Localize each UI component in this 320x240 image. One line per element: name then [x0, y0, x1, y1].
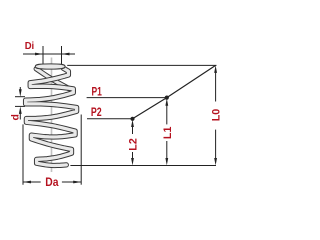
spring helix body (double stroked band) — [26, 66, 77, 166]
P1 line — [87, 97, 167, 99]
Di arrow left (pointing right, tip at x=43) — [35, 53, 43, 56]
Da extension line left — [22, 124, 24, 184]
L0 dimension: arrow up at top junction — [214, 65, 217, 73]
wire d dimension: upper arrow pointing down — [19, 87, 21, 92]
Di extension line right — [61, 46, 63, 65]
L1 lower line + down arrow — [166, 141, 168, 162]
svg-text:L2: L2 — [127, 138, 139, 151]
Da dimension line right part — [62, 181, 81, 183]
Di arrow right (pointing left, tip at x=61.5) — [62, 53, 70, 56]
svg-text:Di: Di — [25, 40, 35, 52]
d tick bottom — [15, 105, 25, 107]
diagonal load line — [133, 65, 216, 118]
centerline (spring axis) — [51, 58, 53, 173]
d tick top — [15, 96, 25, 98]
svg-text:d: d — [10, 114, 22, 120]
svg-text:Da: Da — [45, 175, 58, 189]
Di extension line left — [42, 46, 44, 65]
spring helix main path dark pass — [26, 68, 77, 165]
svg-text:P2: P2 — [91, 105, 102, 119]
L2 lower line + down arrow — [132, 152, 134, 162]
P2 line — [87, 118, 133, 120]
Da arrow left (tip at x=23 pointing left) — [23, 181, 31, 184]
Da extension line right — [80, 115, 82, 185]
svg-text:L0: L0 — [210, 109, 220, 122]
top reference line (L0 top) — [67, 64, 216, 66]
L0 lower line + down arrow — [215, 130, 217, 162]
L1 dimension: arrow up at dot — [165, 98, 168, 106]
bottom baseline — [70, 165, 216, 167]
L2 dimension: arrow up at dot — [131, 120, 134, 128]
top closed coil — [37, 66, 63, 68]
svg-text:P1: P1 — [92, 84, 103, 98]
Da arrow right (tip at x=81.2 pointing right) — [73, 181, 81, 184]
Di dimension line — [23, 53, 75, 55]
P2 node dot — [130, 117, 134, 121]
spring helix main path light pass — [26, 68, 77, 165]
svg-text:L1: L1 — [162, 127, 174, 140]
spring front strand from top coil left (behind) — [36, 69, 73, 91]
P1 node dot — [165, 96, 169, 100]
d lower arrow pointing up — [19, 106, 22, 114]
Da dimension line left part — [23, 181, 41, 183]
